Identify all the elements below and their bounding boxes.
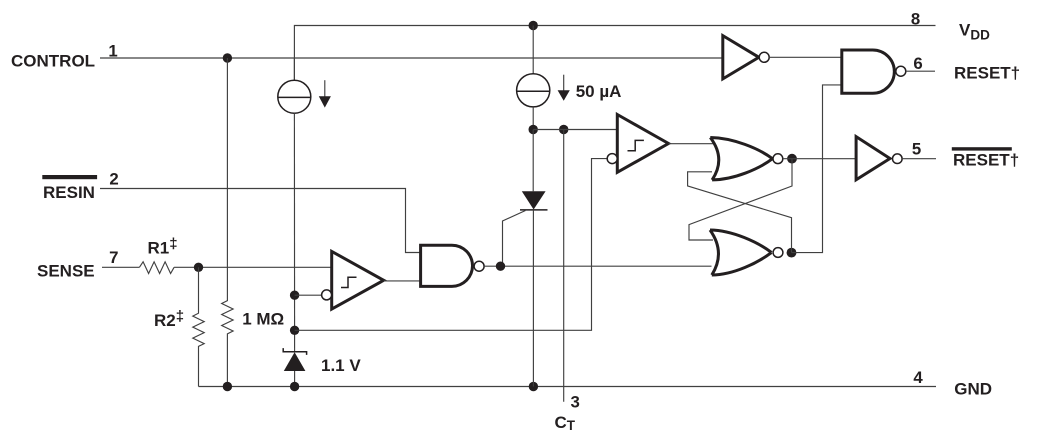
- wire timing node to schmitt U5 input: [533, 129, 617, 131]
- U2 inverting input bubble: [322, 290, 332, 300]
- current source I2 50uA: [517, 74, 550, 107]
- svg-text:CONTROL: CONTROL: [11, 52, 95, 71]
- node U3 output junction: [496, 262, 505, 271]
- current source I2 arrow: [563, 75, 565, 92]
- wire U2 output to NAND U3 lower input: [384, 280, 421, 282]
- node timing junction left: [529, 125, 538, 134]
- schmitt trigger U2: [332, 251, 384, 309]
- wire RESET pin 6: [906, 70, 935, 72]
- U6 output bubble: [773, 154, 783, 164]
- wire R1 to node: [174, 266, 332, 268]
- svg-text:8: 8: [911, 10, 920, 29]
- svg-text:3: 3: [571, 393, 580, 412]
- wire reference node to schmitt U5 inverting input: [295, 159, 608, 331]
- node SENSE junction: [194, 263, 203, 272]
- node U6 output junction: [787, 154, 797, 164]
- svg-text:5: 5: [912, 140, 921, 159]
- wire U1 output to NAND U4 upper input: [769, 56, 842, 58]
- RESET-bar overline: [952, 147, 1012, 150]
- SCR Q1 anode wire: [532, 130, 534, 192]
- wire U7 output to NAND U4 lower input: [792, 85, 842, 253]
- svg-text:2: 2: [109, 170, 118, 189]
- node VDD junction at 50uA source: [529, 21, 538, 30]
- node U7 output junction: [787, 248, 797, 258]
- node reference feedback junction: [290, 326, 299, 335]
- U8 output bubble: [893, 154, 903, 164]
- resistor 1 Mohm from CONTROL to GND: [222, 58, 233, 387]
- wire SCR cathode to GND: [532, 210, 534, 387]
- wire SCR gate to NAND U3 output node: [503, 211, 526, 267]
- U5 hysteresis symbol: [628, 140, 644, 150]
- node GND SCR cathode: [529, 382, 538, 391]
- svg-text:RESIN: RESIN: [43, 183, 95, 202]
- wire CT pin 3: [563, 130, 565, 402]
- zener diode D1 1.1 V: [283, 348, 306, 355]
- nand gate U4: [842, 50, 895, 93]
- wire 50uA source top lead: [532, 26, 534, 75]
- wire U3 output to NOR U7 lower input: [484, 265, 711, 267]
- inverter U8: [856, 137, 890, 180]
- wire I1 output to reference node: [293, 113, 295, 352]
- svg-text:4: 4: [913, 368, 923, 387]
- wire latch cross coupling U7 output to U6 lower input: [688, 172, 792, 253]
- current source I1 top lead: [293, 58, 295, 80]
- svg-text:1: 1: [108, 41, 117, 60]
- U3 output bubble: [474, 261, 484, 271]
- U1 output bubble: [759, 52, 769, 62]
- wire CONTROL pin 1: [100, 57, 723, 59]
- svg-text:RESET†: RESET†: [954, 64, 1020, 83]
- U2 hysteresis symbol: [341, 277, 357, 287]
- wire RESET-bar pin 5: [902, 158, 936, 160]
- wire GND rail pin 4: [199, 386, 937, 388]
- schmitt trigger U5: [617, 115, 668, 173]
- svg-text:1 MΩ: 1 MΩ: [242, 309, 284, 328]
- nand gate U3: [421, 245, 473, 286]
- SCR Q1: [522, 191, 546, 209]
- svg-text:GND: GND: [954, 380, 992, 399]
- U4 output bubble: [896, 66, 906, 76]
- U5 inverting input bubble: [607, 154, 617, 164]
- current source I1 arrow: [324, 80, 326, 98]
- wire VDD top rail pin 8: [294, 26, 935, 81]
- node reference to schmitt U2: [290, 291, 299, 300]
- node GND 1Mohm: [223, 382, 232, 391]
- inverter U1: [723, 36, 759, 79]
- svg-text:SENSE: SENSE: [37, 261, 95, 280]
- svg-text:6: 6: [913, 54, 922, 73]
- nor gate U7: [710, 230, 772, 275]
- wire reference to schmitt U2 inverting input: [295, 294, 322, 296]
- nor gate U6: [710, 138, 772, 180]
- wire zener to GND: [294, 371, 296, 387]
- wire RESIN pin 2 to NAND U3 upper input: [100, 189, 421, 253]
- current source I1: [278, 80, 311, 113]
- node timing junction CT: [559, 125, 568, 134]
- svg-text:RESET†: RESET†: [953, 151, 1019, 170]
- svg-text:7: 7: [109, 248, 118, 267]
- resistor R1: [139, 262, 174, 274]
- node CONTROL junction: [223, 53, 232, 62]
- svg-text:50 µA: 50 µA: [576, 82, 622, 101]
- U7 output bubble: [773, 248, 783, 258]
- wire I2 output to timing node: [532, 107, 534, 130]
- wire U5 output to NOR U6 upper input: [669, 143, 714, 145]
- wire latch cross coupling U6 output to U7 upper input: [689, 159, 792, 240]
- svg-text:1.1 V: 1.1 V: [321, 356, 361, 375]
- wire U6 output to inverter U8: [783, 158, 856, 160]
- node GND zener: [290, 382, 299, 391]
- wire SENSE pin 7 lead: [102, 266, 139, 268]
- resistor R2: [193, 267, 204, 386]
- RESIN overline: [42, 175, 97, 179]
